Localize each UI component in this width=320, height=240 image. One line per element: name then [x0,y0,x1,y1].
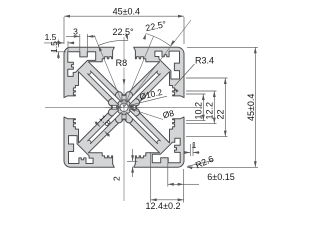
svg-text:45±0.4: 45±0.4 [113,6,140,16]
R8 leader [123,79,126,85]
svg-text:6±0.15: 6±0.15 [207,172,234,182]
angular dimension arc 22.5deg left [98,40,128,45]
dim 6+-0.15 bottom right [167,158,169,187]
dim 22 right [186,77,228,79]
dim 1.5 horizontal top-left [67,41,69,51]
horizontal centerline [45,106,202,108]
gear channel E [130,105,138,109]
dim 2 bottom step [132,149,134,161]
gear channel S [122,113,126,121]
gear channel N [122,94,126,102]
svg-text:2: 2 [112,176,122,181]
svg-text:22: 22 [216,109,226,119]
center bore [120,103,128,111]
gear channel NW (rib slit) [88,71,122,105]
dia 10.2 leader text [128,96,168,106]
svg-text:R8: R8 [116,58,128,68]
svg-text:3: 3 [73,26,78,36]
leg to 45deg direction [124,20,191,107]
dim 45+-0.4 top [63,17,65,44]
gear channel W [111,105,119,109]
gear channel NE (rib slit) [127,71,161,105]
svg-text:12.2: 12.2 [205,102,215,120]
svg-text:10.2: 10.2 [194,102,204,120]
dim 45+-0.4 right [187,46,258,48]
svg-text:1: 1 [192,140,197,150]
dim 3 top tab [79,34,81,56]
22.5deg legs [94,35,124,107]
svg-text:45±0.4: 45±0.4 [246,94,256,121]
dia 8 leader text [130,109,164,120]
arrows on centerline at bore [117,106,123,109]
svg-text:R3.4: R3.4 [195,56,214,66]
dim 1.5 vertical left wall [53,51,66,53]
dim 12.2 right [186,90,217,92]
center gear hub [108,92,139,123]
angular dimension arc 22.5deg right [146,34,170,46]
dim 12.4+-0.2 bottom [150,152,152,203]
aluminium profile 45x45 cross-section body [64,47,184,167]
vertical centerline [123,37,125,201]
svg-text:1.5: 1.5 [45,32,57,42]
dim 1 small [189,144,191,156]
R2.6 leader [188,161,213,167]
dim 1.8 rib thickness [95,122,100,127]
svg-text:12.4±0.2: 12.4±0.2 [146,201,181,211]
gear channel SW (rib slit) [88,110,122,144]
R3.4 leader [175,64,195,86]
svg-text:22.5°: 22.5° [112,27,134,37]
svg-text:1.5: 1.5 [49,41,59,53]
gear channel SE (rib slit) [127,110,161,144]
dim 10.2 right [186,93,206,95]
